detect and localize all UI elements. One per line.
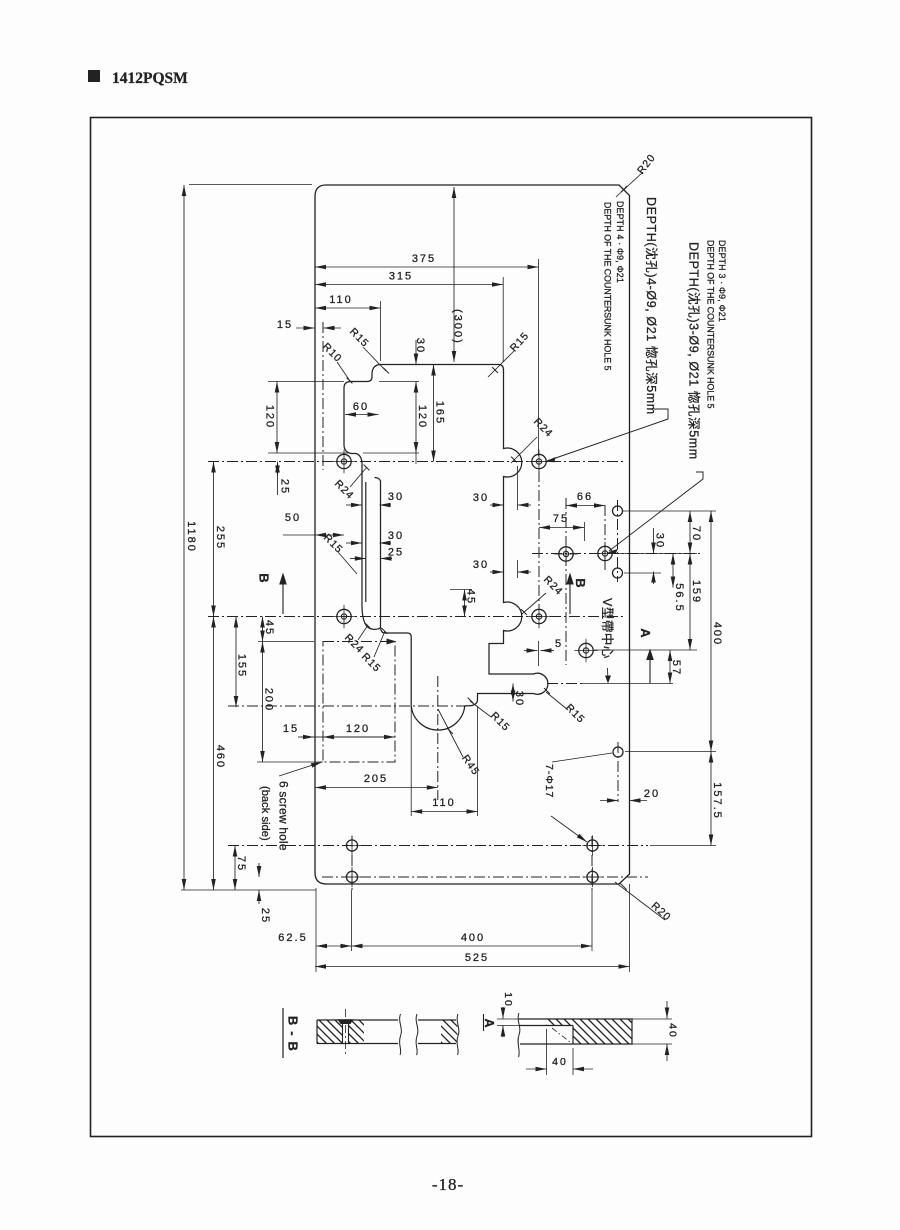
tick R15 cutout TL: [383, 368, 389, 374]
svg-text:200: 200: [263, 688, 275, 712]
centerline col 352 bottom: [351, 836, 353, 890]
centerline col 539: [538, 471, 540, 608]
svg-text:30: 30: [388, 530, 404, 542]
tick R15 Vnotch: [544, 688, 550, 694]
note DEPTH chenkong 4: [644, 197, 659, 415]
svg-text:400: 400: [461, 932, 485, 944]
dim 30 b: [473, 492, 531, 505]
section dim 10: [502, 992, 514, 1037]
centerline col 617 upper: [617, 500, 619, 582]
label R24 lower left: [342, 625, 368, 656]
svg-text:110: 110: [329, 294, 353, 306]
section piece1 hatching: [287, 1020, 399, 1044]
header square bullet: [88, 70, 100, 82]
svg-text:120: 120: [416, 405, 428, 429]
dim 75 bottom: [235, 846, 247, 891]
leader chenkong3: [607, 472, 703, 554]
section ext lines: [497, 1019, 672, 1075]
ext col584 dim75: [584, 522, 586, 541]
note DEPTH chenkong 3: [687, 242, 702, 460]
svg-text:255: 255: [214, 526, 226, 550]
svg-text:V型帶中心: V型帶中心: [600, 598, 615, 659]
dim 110 b: [411, 797, 477, 812]
leader 6 screw hole: [279, 762, 322, 776]
tick R45: [447, 728, 453, 734]
svg-text:DEPTH OF THE COUNTERSUNK HOLE: DEPTH OF THE COUNTERSUNK HOLE 5: [602, 202, 612, 371]
label R15 cutout top right: [488, 330, 532, 377]
centerline col 618 lower: [617, 742, 619, 802]
svg-text:75: 75: [235, 856, 247, 872]
dim 45 right: [465, 589, 477, 617]
hole C2: [593, 542, 616, 565]
tick R24 A1: [364, 465, 370, 471]
dim 60: [345, 401, 379, 415]
centerline col 605: [604, 505, 606, 570]
dim 25 left: [278, 462, 291, 496]
ext col316 bottom: [315, 888, 317, 972]
hole C3: [574, 639, 597, 662]
svg-text:DEPTH 3 · Φ9, Φ21: DEPTH 3 · Φ9, Φ21: [717, 240, 727, 322]
phantom rect back screws: [323, 642, 395, 763]
leader V groove: [605, 668, 611, 684]
dim 45 left: [263, 617, 276, 642]
ext y553 right: [612, 553, 697, 555]
hole E4: [582, 867, 602, 887]
section label B-B text: [285, 1016, 300, 1052]
dim 165: [434, 365, 446, 462]
svg-text:165: 165: [434, 401, 446, 425]
slot right line: [375, 478, 381, 628]
tick R24 lower: [365, 623, 371, 629]
dim 30 e: [513, 684, 525, 708]
svg-text:159: 159: [690, 580, 702, 604]
dim 120 mid: [416, 382, 428, 454]
dim 155: [236, 617, 248, 708]
section arrow B left: [279, 573, 287, 615]
ext y573 right: [624, 572, 661, 574]
dim 120 left: [264, 382, 277, 454]
svg-text:45: 45: [465, 589, 477, 605]
ext y381 right: [379, 381, 419, 383]
ext y453 dim120: [363, 452, 419, 454]
svg-text:5: 5: [555, 638, 563, 650]
dim 15: [277, 319, 341, 331]
hole C1: [554, 542, 577, 565]
R45 scallop arc: [411, 706, 465, 731]
leader 7-phi17 text: [543, 764, 555, 798]
dim 25 bottom: [259, 863, 271, 924]
svg-text:60: 60: [353, 401, 369, 413]
label R15 V notch: [546, 692, 587, 726]
note DEPTH 4 phi: [615, 201, 625, 283]
centerline col 438 R45: [437, 676, 439, 800]
centerline row 461: [208, 461, 626, 463]
ext y589 mid: [450, 589, 472, 591]
svg-text:(back side): (back side): [259, 786, 271, 841]
plate outline: [315, 185, 630, 884]
section piece2 outline: [418, 1020, 456, 1044]
svg-text:70: 70: [690, 526, 702, 542]
centerline row 877: [322, 876, 648, 878]
svg-text:B: B: [256, 573, 271, 582]
svg-text:(300): (300): [452, 309, 464, 345]
hole A2: [527, 450, 550, 473]
svg-text:120: 120: [264, 405, 276, 429]
dim 315: [315, 271, 503, 285]
centerline row 616: [208, 616, 626, 618]
tick R24 A2: [511, 457, 517, 463]
dim 30 slot: [346, 530, 404, 543]
svg-text:15: 15: [283, 723, 299, 735]
cutout right edge with R24 notches: [465, 370, 548, 706]
note V groove center: [600, 598, 615, 659]
svg-text:157.5: 157.5: [711, 782, 723, 820]
section piece3 break left: [518, 1013, 520, 1057]
svg-text:30: 30: [473, 492, 489, 504]
ext col592 bottom: [591, 890, 593, 951]
dim 157.5: [711, 752, 723, 846]
label R10: [320, 341, 350, 381]
dim 56.5: [673, 554, 685, 613]
dim 30 a: [346, 491, 404, 505]
ext top edge left: [189, 184, 312, 186]
V-groove center dash: [547, 683, 582, 685]
small hole D3: [613, 747, 623, 757]
svg-text:57: 57: [670, 660, 682, 676]
section letter B left: [256, 573, 271, 582]
section piece1 slot centerline: [345, 1009, 347, 1055]
svg-text:75: 75: [553, 513, 569, 525]
tick R20 top: [621, 186, 627, 192]
ext col411 dim110b: [410, 706, 412, 816]
dim 110: [315, 294, 381, 308]
svg-text:15: 15: [277, 319, 293, 331]
dim 159: [690, 554, 702, 651]
dim 57: [670, 650, 682, 684]
svg-text:50: 50: [285, 512, 301, 524]
svg-text:DEPTH 4 · Φ9, Φ21: DEPTH 4 · Φ9, Φ21: [615, 201, 625, 283]
section piece1 slot: [338, 1019, 354, 1043]
dim (300): [452, 187, 464, 362]
svg-text:25: 25: [259, 908, 271, 924]
tick R15 cutout TR: [492, 367, 498, 373]
dim 75 right: [539, 513, 584, 528]
ext col351 bottom: [351, 890, 353, 951]
svg-text:10: 10: [502, 992, 514, 1008]
section arrow A right: [646, 649, 654, 684]
dim 20: [600, 788, 660, 801]
svg-text:120: 120: [346, 723, 370, 735]
dim 15 b: [283, 723, 323, 737]
tick R15 shoulder: [468, 698, 474, 704]
note 6 screw hole: [277, 781, 291, 851]
dim 120 b: [323, 723, 395, 737]
leader chenkong4: [545, 409, 668, 462]
svg-text:B: B: [573, 578, 588, 587]
section piece2 break right: [457, 1014, 459, 1055]
leader 7-phi17 upper: [552, 753, 612, 762]
V-groove center line: [582, 683, 673, 685]
svg-text:DEPTH(沈孔)3-Ø9, Ø21 惚孔深5mm: DEPTH(沈孔)3-Ø9, Ø21 惚孔深5mm: [687, 242, 702, 460]
hole B2: [527, 605, 550, 628]
hole A1: [332, 450, 355, 473]
ext y845 right: [650, 845, 716, 847]
dim 400 right: [711, 511, 723, 752]
section arrow B right: [566, 573, 574, 615]
ext y511 right: [623, 510, 716, 512]
dim 400 bottom: [352, 932, 593, 946]
section piece3 step: [520, 1026, 573, 1045]
note back side: [259, 786, 271, 841]
label R24 lower right: [522, 574, 565, 614]
centerline row 845: [228, 845, 648, 847]
ext col 503 dim315: [502, 277, 504, 362]
svg-text:45: 45: [263, 620, 275, 636]
note DEPTH 3 phi: [717, 240, 727, 322]
svg-text:315: 315: [389, 271, 413, 283]
ext bottom 1180: [181, 889, 316, 891]
header model number 1412PQSM: [112, 70, 188, 87]
tick R15 lower: [382, 628, 388, 634]
tick col538 5dim: [538, 641, 540, 666]
label R15 slot: [321, 532, 357, 574]
svg-text:1412PQSM: 1412PQSM: [112, 70, 188, 87]
dim 375: [315, 253, 539, 267]
svg-text:7-Φ17: 7-Φ17: [543, 764, 555, 798]
section letter A right: [638, 628, 653, 638]
svg-text:-18-: -18-: [432, 1175, 464, 1194]
svg-text:375: 375: [412, 253, 436, 265]
tick R24 B2: [521, 609, 527, 615]
section letter B right: [573, 578, 588, 587]
centerline row 706 R45: [228, 705, 466, 707]
svg-text:110: 110: [432, 797, 456, 809]
upper cutout left step: [344, 375, 372, 465]
svg-text:6 screw hole: 6 screw hole: [277, 781, 291, 851]
label R15 R45 shoulder: [470, 701, 512, 734]
ext col 538 hole A2: [538, 259, 540, 456]
label R24 hole A2: [511, 416, 555, 463]
ext col629 bottom: [629, 884, 631, 972]
dim 30 d: [654, 528, 666, 584]
ext y453 left: [268, 452, 348, 454]
dim 70: [690, 511, 702, 554]
ext y762 left: [257, 761, 323, 763]
upper cutout top edge: [372, 365, 504, 375]
svg-text:155: 155: [236, 654, 248, 678]
slot left line: [362, 464, 381, 629]
svg-text:400: 400: [711, 622, 723, 646]
label R20 bottom right: [615, 882, 673, 924]
section piece1 break: [400, 1014, 402, 1055]
leader 7-phi17 lower: [551, 816, 587, 842]
ext col416 overshoot: [415, 453, 417, 464]
dim 255: [214, 462, 227, 617]
svg-text:DEPTH OF THE COUNTERSUNK HOLE: DEPTH OF THE COUNTERSUNK HOLE 5: [705, 240, 715, 409]
ext col517 notch upper: [517, 466, 519, 510]
dim 30 c: [473, 559, 531, 572]
slot inner left line: [365, 482, 367, 602]
centerline row 553: [532, 553, 700, 555]
label R15 cutout top left: [347, 326, 386, 371]
small hole D1: [613, 506, 623, 516]
svg-text:30: 30: [414, 338, 426, 354]
dim 1180: [184, 185, 197, 890]
svg-text:DEPTH(沈孔)4-Ø9, Ø21 惚孔深5mm: DEPTH(沈孔)4-Ø9, Ø21 惚孔深5mm: [644, 197, 659, 415]
svg-text:1180: 1180: [185, 521, 197, 553]
svg-text:A: A: [482, 1018, 496, 1027]
section piece3 chamfer centerline: [552, 1028, 570, 1042]
dim 460: [214, 617, 227, 891]
svg-text:40: 40: [552, 1056, 568, 1068]
dim 205: [315, 773, 438, 788]
label R20 top right: [616, 152, 658, 197]
section dim 40 right: [667, 1001, 679, 1061]
svg-text:B - B: B - B: [285, 1016, 300, 1052]
dim 50: [283, 512, 344, 535]
small hole D2: [613, 568, 623, 578]
hole E3: [582, 835, 602, 855]
svg-text:205: 205: [364, 773, 388, 785]
hole E1: [342, 835, 362, 855]
hole E2: [342, 867, 362, 887]
section dim 40 bottom: [526, 1056, 593, 1069]
note DEPTH OF countersunk 4: [602, 202, 612, 371]
svg-text:20: 20: [644, 788, 660, 800]
ext col 380 dim110: [380, 301, 382, 361]
centerline col 566: [565, 498, 567, 665]
footer page number -18-: [432, 1175, 464, 1194]
section label B-B line: [282, 1008, 284, 1058]
svg-text:25: 25: [388, 547, 404, 559]
ext col477 dim110b: [477, 706, 479, 816]
svg-text:30: 30: [654, 533, 666, 549]
dim 66: [566, 491, 605, 506]
section piece2 hatching: [411, 1020, 491, 1044]
ext y751 right: [625, 751, 716, 753]
label R45: [438, 709, 482, 778]
svg-text:A: A: [638, 628, 653, 638]
section piece1 outline: [317, 1020, 398, 1044]
ext y641 left: [258, 641, 314, 643]
svg-text:30: 30: [513, 691, 525, 707]
svg-text:56.5: 56.5: [673, 583, 685, 612]
ext y650 right: [594, 649, 697, 651]
svg-text:62.5: 62.5: [278, 932, 307, 944]
section piece3 outline: [519, 1019, 632, 1044]
dim 62.5: [278, 932, 351, 946]
svg-text:525: 525: [465, 952, 489, 964]
label R15 lower left: [359, 631, 385, 675]
lower cutout left edge: [381, 627, 412, 706]
centerline col 592 bottom: [591, 836, 593, 890]
hole B1: [332, 605, 355, 628]
dim 525: [315, 952, 630, 967]
section piece3 hatching: [516, 1019, 653, 1044]
svg-text:66: 66: [577, 491, 593, 503]
svg-text:460: 460: [214, 745, 226, 769]
dim 30 top: [414, 338, 426, 365]
svg-text:30: 30: [473, 559, 489, 571]
centerline col 323: [322, 322, 324, 470]
tick R10: [347, 378, 353, 384]
svg-text:40: 40: [667, 1023, 679, 1039]
svg-text:30: 30: [388, 491, 404, 503]
note DEPTH OF countersunk 3: [705, 240, 715, 409]
section letter A: [482, 1014, 496, 1031]
label R24 hole A1: [332, 467, 367, 502]
dim 25 slot: [350, 547, 404, 559]
ext col517 notch lower: [517, 560, 519, 578]
arrow phantom corner: [387, 639, 397, 645]
tick R20 bottom: [620, 883, 626, 889]
dim 5: [524, 638, 563, 651]
dim 200: [263, 642, 275, 763]
page border frame: [91, 118, 812, 1137]
section piece2 break left: [416, 1014, 418, 1055]
svg-text:25: 25: [279, 479, 291, 495]
ext y381 left: [268, 381, 344, 383]
